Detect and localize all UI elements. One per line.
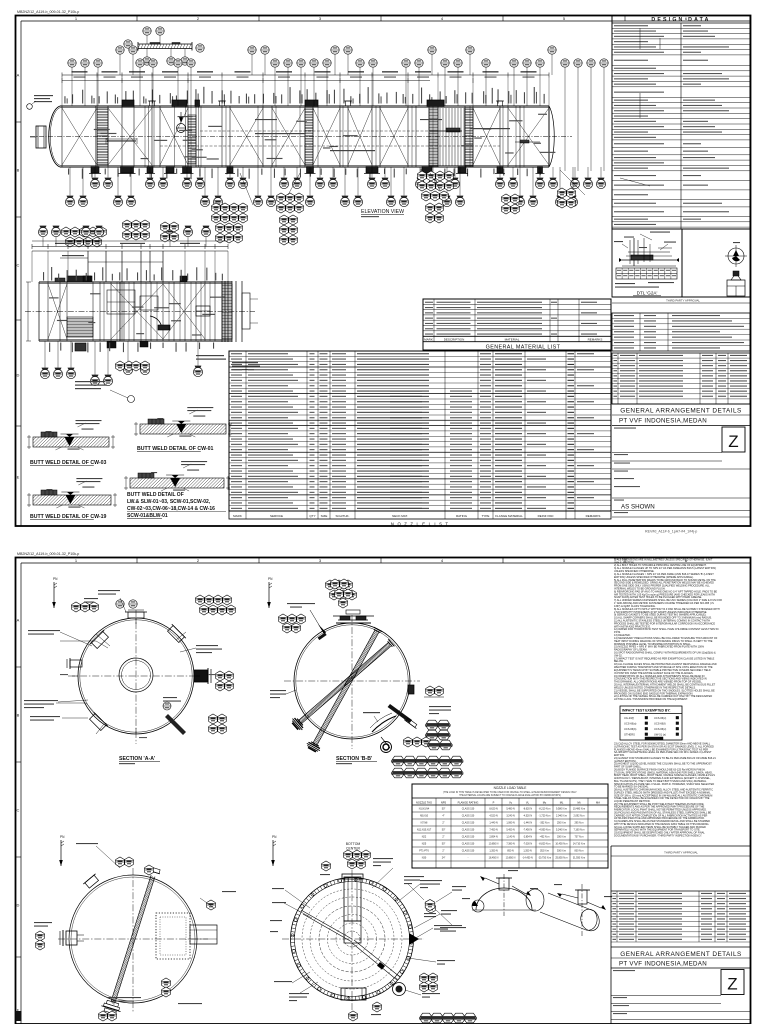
svg-text:GENERAL ARRANGEMENT DETAILS: GENERAL ARRANGEMENT DETAILS [620, 408, 741, 415]
svg-text:PT VVF INDONESIA,MEDAN: PT VVF INDONESIA,MEDAN [619, 418, 707, 425]
svg-text:DTL 'G2A': DTL 'G2A' [637, 291, 658, 296]
partial elevation shell [39, 281, 232, 283]
svg-text:4,520 N: 4,520 N [489, 815, 498, 818]
svg-text:REINF PAD: REINF PAD [538, 514, 555, 518]
svg-text:50": 50" [442, 829, 446, 832]
svg-text:DESIGN DATA: DESIGN DATA [651, 17, 710, 23]
section B-B bottom small nozzle [381, 737, 390, 748]
vessel shell top and bottom lines [60, 105, 549, 107]
svg-text:(THE LOAD IN THIS TABLE IS DEV: (THE LOAD IN THIS TABLE IS DEVELOPED TO … [443, 791, 577, 794]
svg-text:Mt: Mt [578, 801, 581, 805]
section A-A lower-left nozzle [88, 712, 108, 732]
section A-A upper-right nozzle [166, 624, 186, 644]
svg-text:A: A [17, 73, 20, 78]
svg-text:1,350 N: 1,350 N [523, 850, 532, 853]
section B-B bottom big hex rows [391, 756, 404, 766]
svg-text:THIRD PARTY APPROVAL: THIRD PARTY APPROVAL [666, 299, 700, 303]
svg-text:A: A [17, 618, 20, 623]
bottom-center diagonal pipes [301, 910, 352, 939]
partial elevation centerline [25, 311, 255, 313]
section A-A balloons right [216, 671, 225, 681]
svg-text:830 N.m: 830 N.m [574, 850, 583, 853]
design data sub column lines [639, 28, 641, 49]
svg-text:BOTTOM: BOTTOM [346, 842, 361, 846]
svg-text:THE EXTERNAL LOADS ARE SUBJECT: THE EXTERNAL LOADS ARE SUBJECT TO NOZZLE… [459, 794, 561, 797]
section A-A upper-left nozzle [90, 630, 110, 650]
bottom-center leader lines [372, 868, 393, 888]
svg-text:CLASS 150: CLASS 150 [462, 829, 475, 832]
partial elevation mid internals piping [107, 290, 135, 314]
butt weld plate [130, 478, 224, 488]
svg-text:ML: ML [560, 801, 564, 805]
top balloon clusters [71, 67, 73, 106]
DTL G2A notes [615, 283, 635, 284]
weld bead [170, 478, 180, 487]
in-shell flag balloon [177, 124, 186, 133]
section A-A top nozzle [128, 612, 144, 618]
Z size box [722, 427, 745, 452]
section B-B centerlines [351, 615, 353, 749]
bottom shell nozzle stubs [91, 167, 99, 174]
bottom balloon row 2 [69, 167, 71, 196]
section A-A balloons left labels [28, 630, 60, 631]
vessel left dished head [49, 106, 60, 167]
svg-text:SERVICE: SERVICE [270, 514, 283, 518]
mid-right internal bars [446, 128, 460, 132]
vessel centerline [30, 136, 572, 138]
section A-A manway circle [119, 658, 153, 692]
svg-text:-1,440 N: -1,440 N [523, 822, 532, 825]
svg-text:PT1-PT6: PT1-PT6 [419, 850, 429, 853]
bottom-center centerlines [351, 870, 353, 1010]
svg-text:16) SPOT RADIOGRAPHS SHALL COM: 16) SPOT RADIOGRAPHS SHALL COMPLY WITH R… [614, 652, 716, 655]
svg-text:N25: N25 [422, 843, 427, 846]
section B-B top manway assembly [336, 622, 371, 624]
svg-text:SECTION 'A-A': SECTION 'A-A' [119, 756, 155, 762]
svg-text:2,092 N.m: 2,092 N.m [573, 815, 584, 818]
svg-text:THIRD PARTY APPROVAL: THIRD PARTY APPROVAL [664, 851, 698, 855]
partial elevation extra seams [103, 282, 105, 341]
page 2 Z size box [721, 970, 744, 995]
svg-text:QTY: QTY [309, 514, 315, 518]
section B-B right hexes C20-C23 [426, 686, 435, 696]
svg-text:IMPACT TEST EXEMPTED BY:: IMPACT TEST EXEMPTED BY: [622, 709, 670, 713]
svg-text:5,480 N: 5,480 N [506, 808, 515, 811]
head load orientation sketch [476, 888, 532, 910]
bottom-center hexes and labels [322, 861, 331, 871]
svg-text:-452 N.m: -452 N.m [540, 836, 550, 839]
svg-text:2": 2" [442, 822, 444, 825]
svg-text:2,854 N: 2,854 N [489, 836, 498, 839]
section A-A left nozzle [70, 660, 82, 667]
svg-text:1,080 N: 1,080 N [506, 822, 515, 825]
title block page 1 [612, 403, 750, 405]
svg-text:9,580 N.m: 9,580 N.m [556, 808, 567, 811]
bottom-center right black nozzle mark [409, 933, 419, 945]
svg-text:VL: VL [526, 801, 530, 805]
svg-text:CLASS 150: CLASS 150 [462, 815, 475, 818]
svg-text:CLASS 150: CLASS 150 [462, 850, 475, 853]
svg-text:LIFTING LUGS / TRUNNIONS PROVI: LIFTING LUGS / TRUNNIONS PROVIDED ON THE… [614, 698, 688, 701]
svg-text:B: B [17, 713, 20, 718]
balloons above beam detail [146, 35, 148, 44]
svg-text:50": 50" [442, 843, 446, 846]
svg-text:4": 4" [442, 815, 444, 818]
svg-text:NOZZLE TAG: NOZZLE TAG [416, 801, 432, 805]
svg-text:BUTT WELD DETAIL OF: BUTT WELD DETAIL OF [127, 492, 184, 498]
butt weld plate [33, 495, 111, 505]
svg-text:850 N: 850 N [507, 850, 514, 853]
page 2 mid-left hexagon with leaders [425, 900, 435, 911]
vertical leader text band below shell [68, 169, 69, 175]
nozzle list table [229, 351, 611, 511]
svg-text:FLANGE MATERIAL: FLANGE MATERIAL [495, 514, 523, 518]
bottom-left diagonal pipe band [111, 875, 155, 1002]
orientation compass symbol [728, 248, 744, 264]
bottom-left hex balloons [36, 931, 45, 941]
section B-B side plate arc [372, 716, 396, 732]
partial elevation right head [221, 281, 223, 342]
section B-B top hex cluster [331, 579, 340, 589]
svg-text:REMARKS: REMARKS [586, 514, 601, 518]
stems from dimension line to shell [61, 78, 63, 107]
section B-B right hexes T8 rows [425, 720, 438, 730]
DTL G2A mini table [616, 268, 677, 279]
revision history table [612, 353, 750, 404]
weld bead [65, 495, 75, 504]
DTL G2A detail box [612, 229, 682, 297]
svg-text:17) IMPACT TEST IS NOT REQUIRE: 17) IMPACT TEST IS NOT REQUIRED AS PER E… [614, 657, 715, 660]
svg-text:CLASS 150: CLASS 150 [462, 822, 475, 825]
bottom-left section shell circle [69, 875, 197, 1003]
section A-A leader lines [60, 632, 92, 646]
page 2 bottom-left edge mark [16, 1011, 22, 1021]
svg-text:N22: N22 [422, 836, 427, 839]
bottom balloon row 1 [94, 167, 96, 178]
bottom-left labels [76, 843, 98, 844]
svg-text:5,450 N: 5,450 N [506, 829, 515, 832]
internal distributor lines [200, 130, 430, 132]
svg-text:REV#d_A11#-b_1pA7-#4_1#4j-p: REV#d_A11#-b_1pA7-#4_1#4j-p [645, 530, 697, 534]
svg-text:PN: PN [53, 577, 58, 581]
partial elevation top balloons [42, 237, 44, 247]
section B-B pipe top end caps [374, 629, 380, 632]
bottom hexagon clusters [212, 203, 221, 213]
svg-text:GENERAL MATERIAL LIST: GENERAL MATERIAL LIST [486, 344, 561, 350]
svg-text:UCS-66(c): UCS-66(c) [654, 716, 666, 720]
bottom-left top-left stub nozzle [83, 874, 100, 890]
weld bead [176, 424, 186, 433]
svg-text:REMARKS: REMARKS [588, 338, 603, 342]
partial elevation bottom balloons [44, 341, 46, 369]
DTL G2A sketch [622, 259, 676, 261]
svg-text:-7,030 N: -7,030 N [523, 843, 532, 846]
partial elevation scattered text [49, 297, 59, 298]
X braces in shell panels [108, 108, 152, 165]
general material list table [423, 299, 611, 350]
section B-B pipe flanged ends [311, 742, 319, 746]
bottom-center hex cluster below label [344, 850, 353, 860]
svg-text:GENERAL ARRANGEMENT DETAILS: GENERAL ARRANGEMENT DETAILS [620, 951, 741, 958]
design data table [612, 16, 750, 230]
svg-text:DESCRIPTION: DESCRIPTION [444, 338, 465, 342]
svg-text:N1,N3,N4: N1,N3,N4 [419, 808, 430, 811]
svg-text:N11,N15,N17: N11,N15,N17 [417, 829, 432, 832]
section B-B lower right pipe [388, 704, 412, 723]
svg-text:Z: Z [727, 975, 737, 994]
feed distributor label [106, 138, 137, 140]
svg-text:-352 N.m: -352 N.m [540, 822, 550, 825]
section B-B right nozzle [408, 685, 414, 694]
svg-text:PN: PN [268, 577, 273, 581]
svg-text:737 N.m: 737 N.m [574, 836, 583, 839]
dense internal verticals mid-right [439, 108, 441, 166]
svg-text:MB2NZ/12_A119-b_009-01-32_P10k: MB2NZ/12_A119-b_009-01-32_P10k-p [17, 10, 79, 14]
page 2 title block [611, 946, 750, 948]
svg-text:-2,854 N: -2,854 N [523, 836, 532, 839]
section A-A right nozzle with bolts [194, 670, 208, 682]
svg-text:MA: MA [596, 801, 600, 805]
svg-text:18,450 N: 18,450 N [489, 857, 499, 860]
bottom-center shell circle with rim ticks [291, 878, 414, 1001]
svg-text:NOZZLE LOAD TABLE: NOZZLE LOAD TABLE [494, 786, 527, 790]
svg-text:OTHERS: OTHERS [624, 733, 635, 737]
svg-text:UW-01 (a): UW-01 (a) [654, 733, 666, 737]
svg-text:SIZE: SIZE [321, 514, 328, 518]
svg-text:PN: PN [272, 835, 277, 839]
svg-text:3,240 N: 3,240 N [506, 815, 515, 818]
svg-text:FLANGE RATING: FLANGE RATING [458, 801, 479, 805]
svg-text:MARK: MARK [233, 514, 242, 518]
svg-text:LW.& SLW-01~03, SCW-01,SCW-02,: LW.& SLW-01~03, SCW-01,SCW-02, [127, 499, 211, 505]
bottom-center leader labels [373, 858, 393, 859]
svg-text:-8,620 N: -8,620 N [523, 808, 532, 811]
bottom-left right protruding box [190, 925, 217, 944]
svg-text:D: D [17, 903, 20, 908]
second top balloon row [119, 54, 121, 75]
svg-text:352 N.m: 352 N.m [540, 850, 549, 853]
svg-text:BUTT WELD DETAIL OF CW-19: BUTT WELD DETAIL OF CW-19 [30, 514, 106, 520]
svg-text:1,440 N: 1,440 N [489, 822, 498, 825]
bottom-left centerlines [132, 868, 134, 1012]
svg-text:7,450 N: 7,450 N [489, 829, 498, 832]
vertical leader text band above shell [64, 96, 65, 103]
svg-text:AS SHOWN: AS SHOWN [621, 504, 655, 511]
partial elevation internals [67, 276, 92, 282]
left vertical dimension line [27, 282, 29, 341]
svg-text:2,040 N.m: 2,040 N.m [556, 815, 567, 818]
svg-text:SECTION 'B-B': SECTION 'B-B' [336, 756, 372, 762]
svg-text:Z: Z [728, 432, 738, 451]
svg-text:UCS-66(a): UCS-66(a) [624, 722, 637, 726]
reference drawing table [612, 313, 750, 351]
bottom-left pipe end flanges [100, 999, 122, 1015]
svg-text:PN: PN [60, 835, 65, 839]
section A-A lower-right spout [165, 714, 186, 735]
page 2 third party approval band [611, 845, 750, 847]
svg-text:-4,520 N: -4,520 N [523, 815, 532, 818]
svg-text:UCS-66(f): UCS-66(f) [654, 722, 666, 726]
page 2 outer border frame [16, 558, 751, 1024]
svg-text:2": 2" [442, 850, 444, 853]
svg-text:N30: N30 [422, 857, 427, 860]
svg-text:CLASS 150: CLASS 150 [462, 843, 475, 846]
balloons below beam detail [146, 49, 148, 57]
page 1 outer border frame [16, 16, 751, 527]
svg-text:RATING: RATING [456, 514, 468, 518]
svg-text:-8,820 N.m: -8,820 N.m [539, 843, 551, 846]
third party approval row [612, 296, 750, 298]
svg-text:-14,450 N: -14,450 N [522, 857, 533, 860]
svg-text:N7,N8: N7,N8 [421, 822, 428, 825]
svg-text:-4,950 N.m: -4,950 N.m [539, 829, 551, 832]
bottom-left left nozzle flange [66, 931, 77, 945]
nozzle list rows text [231, 353, 242, 354]
top platform beam detail [138, 43, 192, 45]
leader lines below vessel [240, 173, 253, 205]
left end nozzle flange [36, 126, 46, 148]
internal ladder bands [97, 108, 108, 165]
svg-text:N5,N10: N5,N10 [420, 815, 429, 818]
svg-text:MARK: MARK [424, 338, 433, 342]
svg-text:295 N.m: 295 N.m [574, 822, 583, 825]
section B-B left labels [270, 690, 286, 691]
svg-text:-8,210 N.m: -8,210 N.m [539, 808, 551, 811]
svg-text:BUTT WELD DETAIL OF CW-03: BUTT WELD DETAIL OF CW-03 [30, 460, 106, 466]
svg-text:-7,450 N: -7,450 N [523, 829, 532, 832]
svg-text:-20,750 N.m: -20,750 N.m [538, 857, 551, 860]
partial elevation seams [47, 282, 49, 341]
svg-text:5,240 N.m: 5,240 N.m [556, 829, 567, 832]
svg-text:7,160 N.m: 7,160 N.m [573, 829, 584, 832]
svg-text:N O Z Z L E L I S T: N O Z Z L E L I S T [391, 521, 449, 526]
section A-A balloons top [116, 600, 124, 608]
svg-text:2": 2" [442, 836, 444, 839]
butt weld plate [33, 437, 109, 447]
design data row text [614, 25, 648, 26]
svg-text:SCH/THK.: SCH/THK. [335, 514, 349, 518]
nozzle load table [412, 784, 608, 868]
svg-text:UG-20(f): UG-20(f) [624, 716, 634, 720]
svg-text:ELEVATION VIEW: ELEVATION VIEW [361, 209, 404, 215]
svg-text:CLASS 150: CLASS 150 [462, 836, 475, 839]
section B-B left small flange mark [318, 632, 327, 640]
page 1 inner margin lines [21, 20, 750, 22]
svg-text:TYPE: TYPE [482, 514, 490, 518]
svg-text:250 N.m: 250 N.m [557, 822, 566, 825]
svg-text:SA-388 WITH ACCEPTANCE LEVEL A: SA-388 WITH ACCEPTANCE LEVEL AS PER ASME… [614, 751, 712, 754]
section A-A left leader lines [60, 640, 96, 642]
partial elevation X braces [111, 284, 163, 339]
svg-text:MB2NZ/12_A119-b_009-01-32_P10k: MB2NZ/12_A119-b_009-01-32_P10k-p [17, 552, 79, 556]
svg-text:10,850 N: 10,850 N [489, 843, 499, 846]
bottom-center bottom rectangle [341, 988, 366, 1000]
svg-text:NECK MAT.: NECK MAT. [392, 514, 408, 518]
svg-text:24": 24" [442, 857, 446, 860]
svg-text:-1,720 N.m: -1,720 N.m [539, 815, 551, 818]
section A-A rim degree marks [194, 675, 200, 677]
partial elevation vertical text band [43, 272, 44, 280]
impact test exempted box [620, 706, 682, 740]
rim small circles [410, 941, 413, 944]
svg-text:NPS: NPS [441, 801, 447, 805]
dimension text row [72, 71, 88, 72]
svg-text:14,710 N.m: 14,710 N.m [573, 843, 585, 846]
partial elevation upper structure verticals [87, 251, 89, 282]
left-of-head note and flag [34, 95, 53, 96]
section A-A extra leaders [96, 634, 110, 646]
partial elevation long top line [32, 240, 228, 242]
bottom-center inner dashed circles [302, 889, 402, 989]
svg-text:E: E [17, 475, 20, 480]
orientation frame sketch [727, 280, 745, 296]
GML rows text [425, 302, 433, 303]
svg-text:8,620 N: 8,620 N [489, 808, 498, 811]
partial elevation notes [75, 381, 105, 382]
butt weld plate [140, 424, 226, 434]
svg-text:PT VVF INDONESIA,MEDAN: PT VVF INDONESIA,MEDAN [619, 961, 707, 968]
section B-B crossing pipe 2 [299, 642, 392, 723]
partial elevation dimension lines [32, 246, 228, 248]
section B-B upper-left cluster [279, 614, 288, 624]
section B-B shell circle [294, 623, 410, 739]
vessel right head [548, 106, 550, 167]
nozzle list bottom header row [229, 510, 611, 512]
svg-text:12) WATER FOR HYDROSTATIC TEST: 12) WATER FOR HYDROSTATIC TEST SHALL HAV… [614, 628, 719, 631]
svg-text:10,480 N.m: 10,480 N.m [573, 808, 585, 811]
svg-text:BUTT WELD DETAIL OF CW-01: BUTT WELD DETAIL OF CW-01 [137, 446, 213, 452]
page 2 inner margin lines [21, 562, 750, 564]
svg-text:31,550 N.m: 31,550 N.m [573, 857, 585, 860]
svg-text:B: B [17, 168, 20, 173]
svg-text:330 N.m: 330 N.m [557, 836, 566, 839]
svg-text:CW-02~03,CW-06~18,CW-14 & CW-1: CW-02~03,CW-06~18,CW-14 & CW-16 [127, 506, 215, 512]
section A-A centerlines [135, 610, 137, 744]
svg-text:C: C [17, 808, 20, 813]
shell load orientation sketch [526, 889, 594, 911]
svg-text:UCS-66(b): UCS-66(b) [624, 727, 637, 731]
svg-text:MATERIAL: MATERIAL [505, 338, 520, 342]
elevation view dimension line [62, 74, 549, 76]
svg-text:1,350 N: 1,350 N [489, 850, 498, 853]
svg-text:1,140 N: 1,140 N [506, 836, 515, 839]
leader to note circle [110, 390, 128, 398]
partial elevation dark nozzle blobs [83, 276, 91, 282]
svg-text:DOCUMENTATION BY PURCHASER / T: DOCUMENTATION BY PURCHASER / THIRD PARTY… [614, 834, 702, 837]
svg-text:C: C [17, 263, 20, 268]
section B-B crossing pipe 1 [313, 630, 379, 745]
svg-text:CLASS 150: CLASS 150 [462, 808, 475, 811]
svg-text:10,450 N.m: 10,450 N.m [555, 843, 567, 846]
svg-text:7,380 N: 7,380 N [506, 843, 515, 846]
bottom-center downcomer column [344, 877, 361, 921]
rim bolt tick marks [410, 938, 414, 940]
shell seam lines [61, 106, 63, 167]
weld bead [64, 437, 74, 446]
svg-text:D: D [17, 373, 20, 378]
section A-A shell circle [78, 618, 194, 734]
bottom-left dotted rectangle (bolted cover) [156, 913, 190, 959]
bottom-center lower-right bolted flange [393, 983, 406, 996]
svg-text:10,850 N: 10,850 N [506, 857, 516, 860]
svg-text:50": 50" [442, 808, 446, 811]
svg-text:P: P [493, 801, 495, 805]
page 2 revision table [611, 890, 750, 892]
svg-text:UCS-66(c): UCS-66(c) [654, 727, 666, 731]
svg-text:25,850 N.m: 25,850 N.m [555, 857, 567, 860]
top shell nozzle stubs [122, 100, 134, 107]
svg-text:530 N.m: 530 N.m [557, 850, 566, 853]
